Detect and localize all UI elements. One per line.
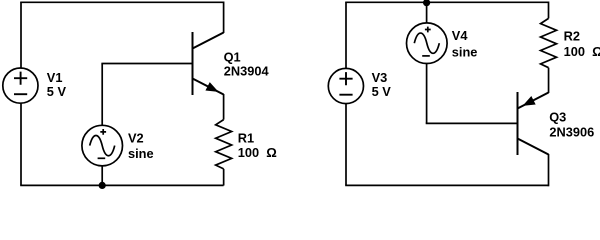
resistor R2 bbox=[541, 18, 557, 67]
svg-text:sine: sine bbox=[452, 45, 478, 60]
voltage source V1 bbox=[3, 68, 38, 103]
wire top net V1+ to Q1 collector bbox=[20, 1, 223, 3]
svg-text:R2: R2 bbox=[564, 29, 580, 44]
svg-text:2N3906: 2N3906 bbox=[549, 125, 594, 140]
svg-text:Q1: Q1 bbox=[224, 50, 241, 65]
svg-text:V1: V1 bbox=[47, 70, 63, 85]
wire bottom net V1- to R1 bbox=[20, 184, 223, 186]
svg-text:sine: sine bbox=[128, 146, 154, 161]
wire V3 bottom lead to bottom-left corner bbox=[345, 104, 347, 185]
wire R1 bottom lead to bottom net bbox=[223, 169, 225, 186]
svg-text:R1: R1 bbox=[238, 130, 254, 145]
svg-text:5 V: 5 V bbox=[372, 84, 392, 99]
wire V3 top lead to top-left corner (right circuit) bbox=[345, 2, 347, 68]
wire top net V3+ to R2 bbox=[345, 1, 548, 3]
wire bottom net V3- to Q3 collector bbox=[345, 184, 548, 186]
wire V4 top lead bbox=[426, 2, 428, 22]
svg-text:V3: V3 bbox=[372, 70, 388, 85]
transistor Q3 bbox=[518, 92, 549, 155]
wire V2 top lead up to base corner bbox=[101, 64, 103, 126]
wire Q1 emitter to R1 top bbox=[223, 94, 225, 120]
wire R2 bottom lead to Q3 emitter corner bbox=[548, 68, 550, 93]
wire base net V2+ to Q1 base bbox=[101, 63, 192, 65]
wire V4 bottom lead down to base corner bbox=[426, 64, 428, 124]
wire V2 bottom lead bbox=[101, 166, 103, 186]
wire V1 bottom lead to bottom-left corner bbox=[20, 104, 22, 186]
source V4 sine bbox=[407, 23, 448, 64]
svg-text:100 Ω: 100 Ω bbox=[238, 145, 277, 160]
resistor R1 bbox=[216, 120, 232, 169]
voltage source V3 bbox=[328, 68, 363, 103]
wire Q3 collector drop to bottom net bbox=[548, 154, 550, 186]
svg-text:5 V: 5 V bbox=[47, 84, 67, 99]
junction dot V4+ on top net bbox=[423, 0, 430, 6]
wire base net V4- to Q3 base bbox=[426, 122, 517, 124]
svg-text:V2: V2 bbox=[128, 130, 144, 145]
wire Q1 collector drop from top wire bbox=[223, 2, 225, 34]
wire R2 top lead from top net bbox=[548, 2, 550, 19]
svg-text:100 Ω: 100 Ω bbox=[564, 44, 600, 59]
svg-text:2N3904: 2N3904 bbox=[224, 63, 270, 78]
svg-text:Q3: Q3 bbox=[549, 109, 566, 124]
wire V1 top lead to top-left corner bbox=[20, 2, 22, 68]
svg-text:V4: V4 bbox=[452, 28, 469, 43]
source V2 sine bbox=[82, 125, 123, 166]
junction dot V2- on bottom net bbox=[99, 182, 106, 189]
transistor Q1 bbox=[193, 32, 224, 95]
